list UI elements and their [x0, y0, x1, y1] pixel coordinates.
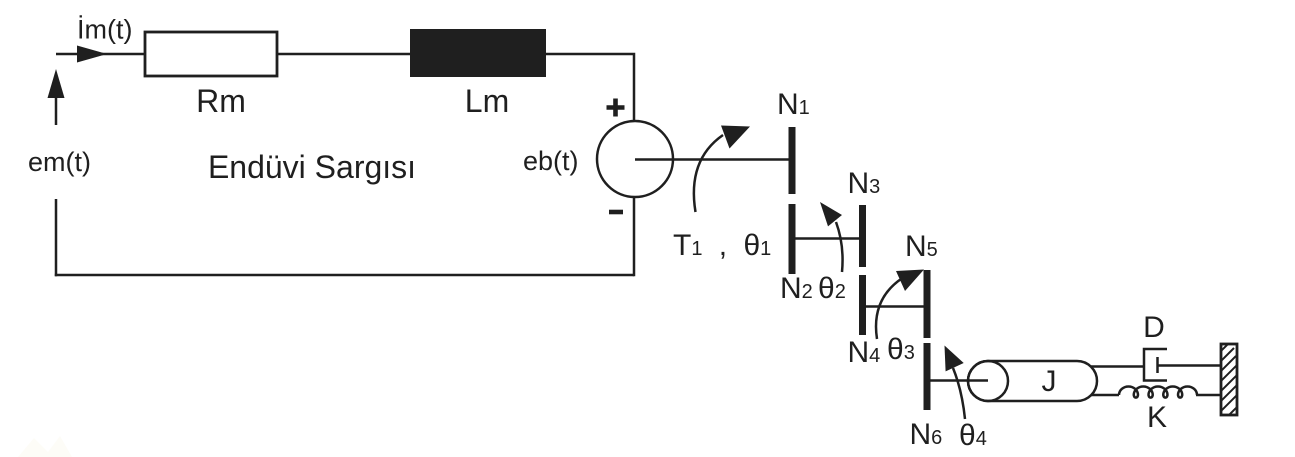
inertia cylinder left cap — [968, 361, 1008, 401]
svg-text:D: D — [1143, 311, 1165, 344]
motor shaft — [635, 158, 792, 161]
gear N5 — [924, 270, 931, 338]
resistor Rm — [145, 32, 277, 76]
wire bottom — [55, 274, 634, 277]
damper D housing — [1144, 349, 1167, 381]
svg-text:Lm: Lm — [465, 83, 509, 119]
faint logo artifact bottom-left — [18, 436, 72, 457]
spring to wall wire — [1196, 394, 1222, 397]
svg-text:J: J — [1042, 365, 1057, 398]
gear N6 — [924, 343, 931, 410]
wall — [1216, 340, 1240, 418]
current arrow im(t) — [77, 46, 107, 63]
plus sign — [607, 99, 625, 117]
shaft 4 — [927, 379, 988, 382]
spring K — [1119, 387, 1197, 398]
shaft 2 — [792, 237, 862, 240]
gear N3 — [859, 205, 866, 267]
wire right vertical lower — [633, 197, 636, 276]
damper rod to wall — [1158, 364, 1222, 367]
voltage source eb(t) — [597, 121, 673, 197]
minus sign — [609, 210, 623, 215]
svg-text:eb(t): eb(t) — [523, 146, 579, 176]
svg-text:T1 , θ1: T1 , θ1 — [673, 229, 771, 262]
wire left vertical — [55, 199, 58, 276]
node source arrow (em) — [48, 69, 65, 98]
wire between Rm and Lm — [277, 53, 411, 56]
rotation arrow θ2 — [836, 222, 843, 272]
gear N4 — [859, 275, 866, 335]
rod to spring — [1091, 394, 1119, 397]
shaft 3 — [863, 305, 928, 308]
svg-text:Endüvi Sargısı: Endüvi Sargısı — [208, 149, 416, 185]
wire top-left segment — [56, 53, 145, 56]
wire Lm to top-right corner — [545, 54, 634, 121]
rotation arrow θ4 — [953, 368, 965, 419]
torque arrow T1 — [694, 135, 723, 212]
rotation arrow θ3 — [876, 279, 901, 339]
inertia cylinder J body — [968, 361, 1097, 401]
gear N1 — [789, 127, 796, 194]
svg-text:K: K — [1147, 401, 1167, 434]
inductor Lm — [411, 30, 545, 76]
svg-text:İm(t): İm(t) — [77, 14, 132, 45]
gear N2 — [789, 204, 796, 274]
svg-text:Rm: Rm — [196, 83, 246, 119]
rod to damper — [1091, 365, 1144, 368]
damper piston — [1156, 357, 1159, 373]
svg-text:em(t): em(t) — [28, 147, 91, 177]
